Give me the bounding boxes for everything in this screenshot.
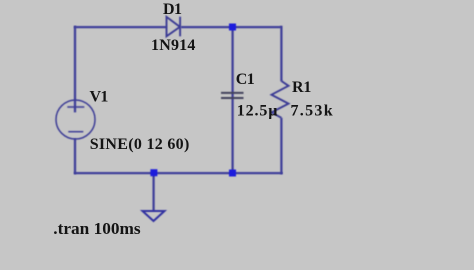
- wire ground stub vertical: [152, 173, 154, 211]
- wire bottom horizontal (left corner to ground junction): [74, 172, 154, 174]
- wire right rail vertical (R1 bottom to bottom corner): [280, 118, 282, 174]
- svg-text:C1: C1: [236, 71, 255, 88]
- wire top horizontal (junction to right rail): [233, 26, 282, 28]
- svg-text:V1: V1: [90, 89, 109, 106]
- svg-text:D1: D1: [163, 1, 182, 18]
- capacitor C1: [221, 93, 244, 98]
- wire right rail vertical (top corner to R1 top): [280, 26, 282, 82]
- wire left rail vertical (V1 bottom to bottom rail): [74, 139, 76, 175]
- resistor R1: [272, 81, 289, 118]
- wire bottom horizontal (ground junction to capacitor junction): [154, 172, 233, 174]
- wire capacitor branch vertical (top junction through C1 to bottom junction): [231, 27, 233, 173]
- svg-text:R1: R1: [292, 79, 311, 96]
- voltage source V1: [56, 100, 95, 139]
- wire bottom horizontal (capacitor junction to right corner): [233, 172, 283, 174]
- diode D1: [167, 17, 181, 37]
- svg-text:1N914: 1N914: [151, 37, 196, 54]
- ground: [143, 211, 165, 221]
- wire top-left horizontal (left rail to diode anode): [74, 26, 167, 28]
- wire left rail vertical (top corner down into V1 plus): [74, 26, 76, 113]
- svg-text:SINE(0 12 60): SINE(0 12 60): [90, 136, 190, 153]
- svg-text:.tran 100ms: .tran 100ms: [53, 219, 141, 238]
- svg-text:7.53k: 7.53k: [291, 102, 334, 119]
- wire top horizontal (diode cathode to node junction): [181, 26, 233, 28]
- junction node top (cap branch and top wire): [229, 24, 236, 31]
- junction node bottom (cap branch and bottom wire): [229, 170, 236, 177]
- junction node ground (bottom wire): [150, 169, 157, 176]
- svg-text:12.5µ: 12.5µ: [237, 103, 278, 120]
